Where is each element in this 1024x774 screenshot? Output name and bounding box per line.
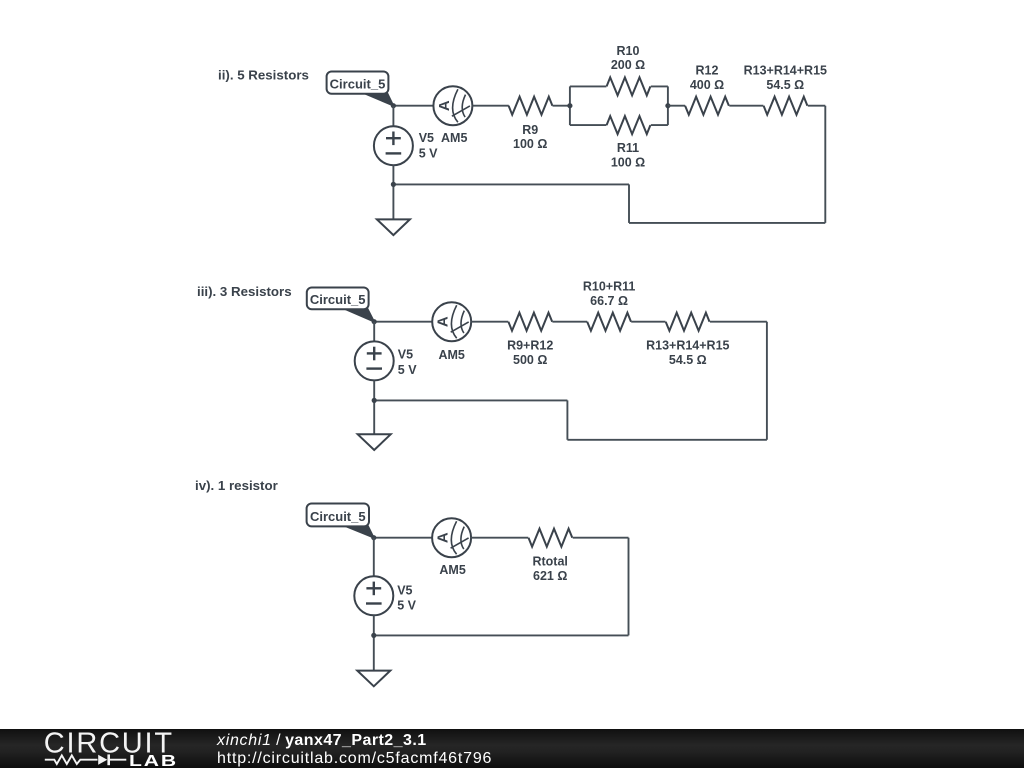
wire bottom return [629, 222, 825, 224]
svg-text:200 Ω: 200 Ω [611, 58, 645, 72]
svg-text:A: A [435, 316, 452, 327]
parallel right branch wires [651, 85, 668, 87]
ammeter AM5 (circuit iii) [432, 302, 471, 341]
node (top-left junction, circuit iii) [372, 319, 377, 324]
resistor R9 100 Ohm [509, 97, 553, 115]
wire R9+R12 to R10+R11 [552, 321, 587, 323]
net flag Circuit_5 (circuit iii) [344, 309, 375, 322]
junction node left of parallel pair [567, 103, 572, 108]
node (top-left junction, circuit iv) [371, 535, 376, 540]
svg-text:A: A [435, 532, 452, 543]
resistor R10 200 Ohm (top branch) [607, 77, 651, 95]
CircuitLab logo resistor-diode underline [45, 754, 127, 765]
svg-text:xinchi1 / yanx47_Part2_3.1: xinchi1 / yanx47_Part2_3.1 [216, 732, 427, 749]
wire node to source [392, 106, 394, 127]
svg-text:R9+R12: R9+R12 [507, 339, 553, 353]
resistor R13+R14+R15 54.5 Ohm (circuit iii) [666, 313, 710, 331]
svg-text:54.5 Ω: 54.5 Ω [766, 78, 804, 92]
wire source to ground (circuit iii) [373, 380, 375, 434]
junction node at source bottom (circuit iv) [371, 633, 376, 638]
voltage source V5 5V (circuit ii) [374, 126, 413, 165]
svg-text:iv). 1 resistor: iv). 1 resistor [195, 478, 278, 493]
wire node to ammeter (circuit iv) [374, 537, 432, 539]
wire chain to right edge [808, 105, 826, 107]
svg-text:621 Ω: 621 Ω [533, 569, 567, 583]
resistor R13+R14+R15 54.5 Ohm [764, 97, 808, 115]
svg-text:Circuit_5: Circuit_5 [310, 292, 366, 307]
svg-text:ii). 5 Resistors: ii). 5 Resistors [218, 68, 309, 83]
wire source to ground (circuit iv) [373, 615, 375, 670]
wire node to ammeter [393, 105, 433, 107]
ground (circuit ii) [377, 219, 410, 235]
resistor R9+R12 500 Ohm [508, 313, 552, 331]
wire bottom return (circuit iii) [567, 439, 767, 441]
wire node to source (circuit iii) [373, 322, 375, 343]
svg-text:R11: R11 [617, 141, 639, 155]
resistor Rtotal 621 Ohm [529, 529, 573, 547]
svg-text:54.5 Ω: 54.5 Ω [669, 353, 707, 367]
resistor R11 100 Ohm (bottom branch) [607, 116, 651, 134]
svg-text:R10: R10 [617, 44, 640, 58]
svg-text:Rtotal: Rtotal [532, 555, 567, 569]
svg-text:R12: R12 [696, 64, 719, 78]
wire ammeter to R9+R12 [471, 321, 508, 323]
junction node at source bottom (circuit iii) [372, 398, 377, 403]
wire right vertical return [824, 106, 826, 223]
CircuitLab logo wordmark CIRCUIT [44, 727, 174, 759]
node A (top-left junction, circuit ii) [391, 103, 396, 108]
voltage source V5 5V (circuit iii) [355, 341, 394, 380]
svg-text:Circuit_5: Circuit_5 [330, 77, 386, 92]
svg-text:A: A [436, 100, 453, 111]
CircuitLab logo wordmark LAB [129, 751, 178, 769]
junction node right of parallel pair [665, 103, 670, 108]
svg-text:V5: V5 [398, 347, 413, 361]
net flag Circuit_5 (circuit ii) [363, 93, 393, 106]
svg-text:R13+R14+R15: R13+R14+R15 [744, 64, 827, 78]
footer author / title text [216, 732, 427, 749]
ammeter AM5 (circuit iv) [432, 518, 471, 557]
svg-text:AM5: AM5 [441, 131, 467, 145]
wire right vertical return (circuit iii) [766, 322, 768, 440]
svg-text:V5: V5 [419, 131, 434, 145]
resistor R10+R11 66.7 Ohm [587, 313, 631, 331]
wire right vertical return (circuit iv) [628, 538, 630, 636]
svg-text:500 Ω: 500 Ω [513, 353, 547, 367]
wire source to ground node [392, 165, 394, 219]
wire chain to right edge (circuit iii) [710, 321, 767, 323]
net flag Circuit_5 (circuit iv) [344, 526, 374, 538]
svg-text:5 V: 5 V [398, 363, 417, 377]
ground (circuit iii) [358, 434, 391, 450]
ammeter AM5 (circuit ii) [433, 86, 472, 125]
footer url text [217, 750, 492, 767]
svg-text:5 V: 5 V [419, 147, 438, 161]
svg-text:R13+R14+R15: R13+R14+R15 [646, 339, 729, 353]
wire ammeter to R9 [472, 105, 508, 107]
svg-text:R10+R11: R10+R11 [583, 279, 636, 293]
svg-text:400 Ω: 400 Ω [690, 78, 724, 92]
svg-text:100 Ω: 100 Ω [513, 137, 547, 151]
svg-text:100 Ω: 100 Ω [611, 156, 645, 170]
voltage source V5 5V (circuit iv) [354, 576, 393, 615]
wire node to source (circuit iv) [373, 538, 375, 577]
ground (circuit iv) [357, 671, 390, 687]
wire Rtotal to right edge [573, 537, 629, 539]
svg-text:66.7 Ω: 66.7 Ω [590, 294, 628, 308]
wire junction to R12 [668, 105, 685, 107]
wire R12 to R13 chain [729, 105, 763, 107]
svg-text:V5: V5 [397, 584, 412, 598]
wire return step vertical (circuit iii) [566, 400, 568, 439]
svg-text:AM5: AM5 [439, 563, 465, 577]
svg-text:Circuit_5: Circuit_5 [310, 509, 366, 524]
junction node at source bottom [391, 182, 396, 187]
wire R10+R11 to R13 chain [631, 321, 665, 323]
wire bottom return (circuit iv) [374, 634, 629, 636]
resistor R12 400 Ohm [685, 97, 729, 115]
wire ammeter to Rtotal [471, 537, 528, 539]
svg-text:iii). 3 Resistors: iii). 3 Resistors [197, 284, 292, 299]
parallel left branch wires [569, 86, 571, 125]
wire return step vertical [628, 184, 630, 223]
wire node to ammeter [374, 321, 432, 323]
svg-text:http://circuitlab.com/c5facmf4: http://circuitlab.com/c5facmf46t796 [217, 750, 492, 767]
svg-text:5 V: 5 V [397, 599, 416, 613]
svg-text:LAB: LAB [129, 751, 178, 768]
wire return to source (circuit iii) [374, 399, 567, 401]
svg-text:R9: R9 [522, 123, 538, 137]
svg-text:AM5: AM5 [438, 348, 464, 362]
wire R9 to parallel junction [553, 105, 570, 107]
wire return to source [393, 183, 629, 185]
